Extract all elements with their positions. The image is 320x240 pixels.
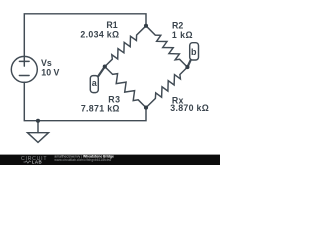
wire: source top to bridge top node [24, 14, 146, 57]
node a tag box [90, 76, 98, 93]
junction dot: node a vertex [103, 65, 107, 69]
node b tag box [190, 43, 199, 60]
junction dot: ground tap [36, 119, 40, 123]
footer black bar [0, 155, 220, 165]
resistor R1 zigzag [105, 26, 146, 67]
node b tag connector line [187, 60, 190, 67]
junction dot: node b vertex [185, 65, 189, 69]
node a tag connector line [98, 67, 105, 77]
junction dot: bottom node [144, 106, 148, 110]
wire: ground stub [37, 121, 39, 133]
svg-text:LAB: LAB [32, 160, 42, 165]
footer logo resistor zigzag glyph [24, 161, 32, 163]
junction dot: top node [144, 24, 148, 28]
ground symbol triangle [28, 133, 49, 143]
svg-text:Vs: Vs [41, 58, 52, 68]
svg-text:3.870 kΩ: 3.870 kΩ [170, 103, 209, 113]
resistor R3 zigzag [105, 67, 146, 108]
voltage source plus sign [19, 57, 29, 66]
wire: source bottom to bottom rail to bridge bottom node [24, 82, 146, 121]
svg-text:www.circuitlab.com/c/fxhgvb611: www.circuitlab.com/c/fxhgvb6118fcbw [54, 158, 111, 162]
svg-text:2.034 kΩ: 2.034 kΩ [80, 29, 119, 39]
svg-text:b: b [191, 47, 197, 57]
resistor Rx zigzag [146, 67, 187, 108]
voltage source Vs circle [11, 56, 37, 82]
svg-text:R2: R2 [172, 20, 183, 30]
svg-text:1 kΩ: 1 kΩ [172, 30, 193, 40]
svg-text:7.871 kΩ: 7.871 kΩ [81, 104, 120, 114]
voltage source minus sign [19, 75, 29, 77]
svg-text:10 V: 10 V [41, 68, 59, 78]
resistor R2 zigzag [146, 26, 187, 67]
